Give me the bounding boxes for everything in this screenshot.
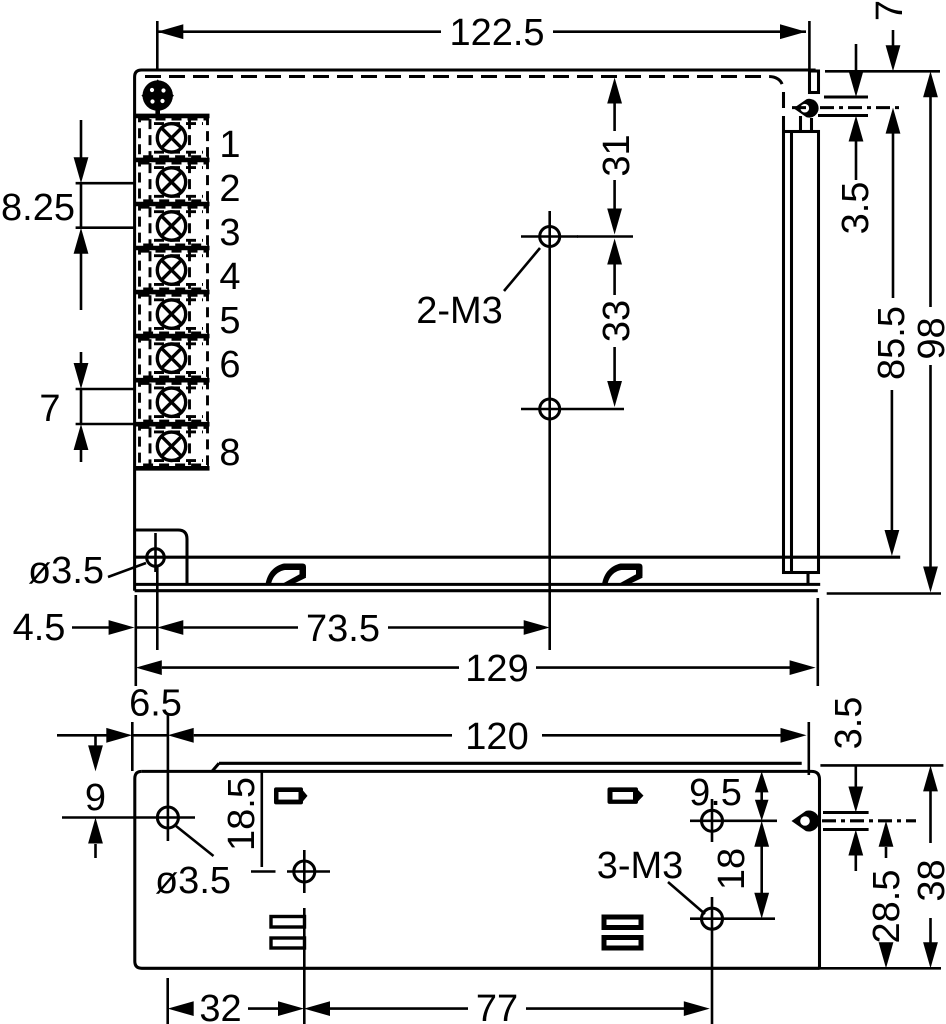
vent slots left (2 rects) [271, 917, 305, 949]
svg-text:3-M3: 3-M3 [597, 845, 684, 887]
top view dashed cover edge [145, 77, 784, 131]
svg-text:31: 31 [596, 134, 638, 176]
dim 32 [168, 908, 305, 1024]
svg-text:129: 129 [465, 648, 528, 690]
svg-text:7: 7 [39, 388, 60, 430]
svg-text:2: 2 [219, 168, 240, 210]
mounting hole B (mid-left) [287, 850, 330, 893]
terminal block 8 terminals [136, 116, 210, 468]
dim 18.5 [251, 771, 276, 871]
svg-text:3: 3 [219, 212, 240, 254]
dim 28.5 [885, 847, 888, 858]
bracket keyhole slot (top view) [794, 99, 819, 118]
bottom view case outline [135, 763, 820, 968]
dim 120 [194, 734, 781, 737]
dim 18 [760, 846, 763, 893]
svg-text:7: 7 [869, 0, 911, 21]
svg-text:4.5: 4.5 [13, 607, 66, 649]
dim 129 [162, 598, 818, 686]
dim 122.5 [157, 21, 809, 87]
dim 98 [827, 97, 941, 594]
svg-text:122.5: 122.5 [449, 12, 544, 54]
adjustment screw top-left [141, 79, 174, 114]
vent slot left [274, 787, 308, 804]
svg-text:8.25: 8.25 [1, 187, 75, 229]
svg-text:120: 120 [465, 716, 528, 758]
dim 9.5 [760, 780, 763, 812]
dim 77 [330, 1007, 684, 1010]
side bracket strip (top view right) [784, 71, 819, 573]
svg-text:28.5: 28.5 [866, 870, 908, 944]
hole o3.5 (top view) [147, 533, 165, 572]
svg-text:32: 32 [199, 988, 241, 1024]
mounting hole D (3-M3 lower) [690, 897, 775, 1024]
keyhole centerline [792, 106, 900, 109]
mounting hole C (3-M3 upper) [690, 799, 777, 842]
mounting hole A (left) [146, 713, 195, 841]
svg-text:1: 1 [219, 124, 240, 166]
dim 33 [613, 264, 616, 381]
vent slot right [608, 787, 644, 804]
dim 3.5 (bottom view slot) [854, 765, 857, 871]
svg-text:18.5: 18.5 [221, 777, 263, 851]
mounting holes 2-M3 [521, 211, 624, 650]
keyhole slot (bottom view) [792, 811, 820, 832]
svg-text:ø3.5: ø3.5 [155, 860, 231, 902]
svg-text:38: 38 [911, 859, 946, 901]
dim 31 [577, 103, 633, 237]
svg-text:9.5: 9.5 [689, 772, 742, 814]
svg-text:9: 9 [85, 777, 106, 819]
dim 8.25 [76, 120, 135, 310]
svg-text:3.5: 3.5 [828, 697, 870, 750]
top view case outline [135, 70, 901, 591]
svg-text:5: 5 [219, 300, 240, 342]
svg-text:2-M3: 2-M3 [416, 290, 503, 332]
svg-text:98: 98 [911, 317, 946, 359]
svg-text:ø3.5: ø3.5 [28, 550, 104, 592]
vent slots right (2 rects) [604, 917, 641, 948]
svg-text:18: 18 [711, 848, 753, 890]
svg-text:73.5: 73.5 [306, 608, 380, 650]
svg-text:85.5: 85.5 [871, 306, 913, 380]
svg-text:4: 4 [219, 256, 240, 298]
dim 85.5 [891, 390, 894, 531]
chassis clips [266, 564, 307, 585]
svg-text:3.5: 3.5 [835, 182, 877, 235]
terminal numbers [219, 124, 240, 474]
svg-text:77: 77 [476, 988, 518, 1024]
dim 3.5 (top right slot) [855, 44, 858, 180]
dim 4.5 [72, 565, 298, 686]
dim 73.5 [388, 626, 524, 629]
dim 38 [820, 765, 944, 968]
dim 9 [62, 735, 146, 858]
dim 7 (top right) [825, 30, 940, 298]
svg-text:6: 6 [219, 344, 240, 386]
dim 7 (terminals) [76, 352, 135, 462]
svg-text:33: 33 [596, 300, 638, 342]
bottom-left mount box [135, 530, 187, 584]
terminal screws [157, 124, 185, 461]
svg-text:6.5: 6.5 [129, 683, 182, 725]
svg-text:8: 8 [219, 432, 240, 474]
